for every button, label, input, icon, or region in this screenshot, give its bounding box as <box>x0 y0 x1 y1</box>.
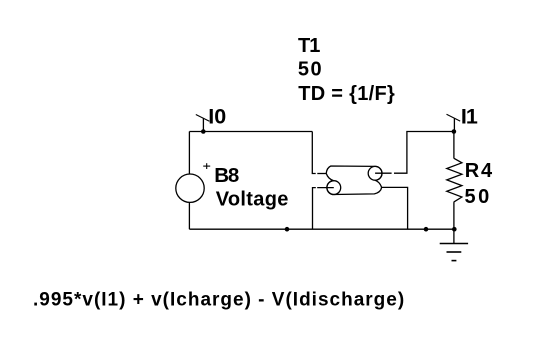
svg-text:50: 50 <box>298 58 323 80</box>
ground bar 2 <box>447 251 462 253</box>
marker I0 probe <box>202 118 204 131</box>
svg-text:50: 50 <box>465 186 492 208</box>
svg-text:Voltage: Voltage <box>216 188 289 210</box>
transmission line T1 shield outline <box>326 166 382 195</box>
wire T1 A+ pin stub <box>317 173 326 175</box>
wire T1 A- corner <box>313 188 316 230</box>
wire left vertical lower <box>188 202 190 229</box>
wire T1 B+ pin stub <box>375 172 392 174</box>
wire bottom horizontal <box>189 228 454 230</box>
transmission line T1 inner conductor circle left <box>327 181 341 195</box>
wire T1 A+ drop <box>312 132 315 174</box>
junction dot ground <box>452 227 457 232</box>
ground lead <box>453 229 455 243</box>
resistor R4 zigzag <box>447 158 462 202</box>
svg-text:T1: T1 <box>298 35 320 57</box>
wire T1 B- pin and drop <box>382 187 408 229</box>
svg-text:B8: B8 <box>214 164 239 187</box>
wire right vertical lower <box>453 202 455 229</box>
wire right vertical upper <box>453 132 455 159</box>
junction dot I0 <box>201 129 206 134</box>
svg-text:I0: I0 <box>208 104 226 128</box>
svg-text:TD = {1/F}: TD = {1/F} <box>298 83 395 105</box>
voltage source B8 circle <box>176 174 204 202</box>
junction dot bottom left <box>285 227 290 232</box>
transmission line T1 inner conductor circle right <box>368 166 382 180</box>
wire top-left horizontal <box>189 131 312 133</box>
plus sign of B8 <box>203 165 210 167</box>
junction dot bottom right <box>424 227 429 232</box>
wire T1 A- pin stub <box>317 187 334 189</box>
junction dot I1 <box>452 129 457 134</box>
ground bar 1 <box>440 243 468 245</box>
ground bar 3 <box>452 260 457 262</box>
wire T1 B+ riser <box>394 132 454 174</box>
svg-text:.995*v(I1) + v(Icharge) - V(Id: .995*v(I1) + v(Icharge) - V(Idischarge) <box>33 289 405 310</box>
marker I1 probe <box>453 118 455 131</box>
svg-text:R4: R4 <box>465 160 494 182</box>
wire left vertical upper <box>188 132 190 175</box>
svg-text:I1: I1 <box>461 104 478 128</box>
